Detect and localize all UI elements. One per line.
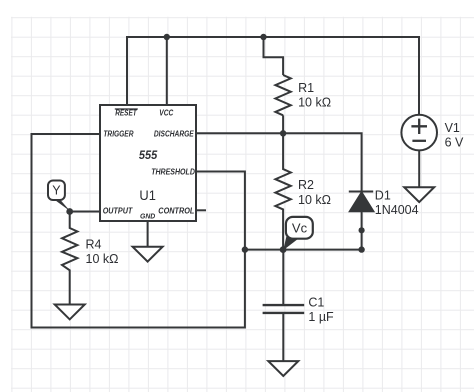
wire R1 bottom lead [282,115,284,133]
svg-text:Y: Y [52,184,61,198]
svg-text:1 µF: 1 µF [308,310,334,324]
voltage source V1 [401,115,437,187]
value labels [86,81,465,324]
wire VCC riser [166,37,168,105]
svg-text:D1: D1 [375,189,391,203]
node D1 anode junction [359,227,365,233]
resistor R4 [62,212,77,305]
svg-text:R4: R4 [86,237,102,251]
node output junction [66,208,73,215]
svg-text:Vc: Vc [292,220,308,235]
node D1 bottom junction [358,246,364,252]
svg-text:R1: R1 [298,81,314,95]
resistor R1 [275,75,290,115]
svg-text:TRIGGER: TRIGGER [103,130,133,139]
ground below 555 [133,247,163,262]
capacitor C1 [263,250,305,362]
ground below R4 [55,305,85,320]
svg-text:10 kΩ: 10 kΩ [298,96,331,110]
svg-text:10 kΩ: 10 kΩ [86,252,119,266]
svg-text:DISCHARGE: DISCHARGE [154,130,194,139]
diode D1 [349,192,374,231]
svg-text:6 V: 6 V [445,135,464,149]
node threshold junction [242,246,248,252]
node Vc junction [280,246,287,253]
wire DISCHARGE to D1 [196,133,362,191]
node tag Vc [283,217,313,250]
wire GND pin [147,221,149,247]
svg-text:CONTROL: CONTROL [158,207,194,216]
wire trigger feedback loop [32,134,245,328]
node tag Y [48,181,71,212]
wire D1 anode down [361,230,363,250]
wire Vc horizontal [245,249,362,251]
op-amp U1 555 timer box [100,105,196,221]
svg-text:C1: C1 [308,295,324,309]
svg-text:RESET: RESET [115,108,137,117]
wire R1 jog from top rail [264,37,284,75]
wire THRESHOLD to node [196,172,245,250]
wire top rail [127,37,419,115]
ground below V1 [404,187,434,202]
resistor R2 [275,133,290,249]
node VCC junction [164,34,170,40]
svg-text:1N4004: 1N4004 [375,203,419,217]
wire OUTPUT [70,211,100,213]
node R1 top junction [260,34,266,40]
wire CONTROL stub [196,209,206,211]
svg-text:U1: U1 [139,187,156,203]
svg-text:V1: V1 [445,121,460,135]
svg-text:555: 555 [139,150,158,162]
svg-text:THRESHOLD: THRESHOLD [151,168,195,177]
svg-text:10 kΩ: 10 kΩ [298,193,331,207]
555 pin labels [103,108,195,220]
svg-text:R2: R2 [298,178,314,192]
node R1/R2/discharge junction [280,130,286,136]
svg-text:GND: GND [140,214,155,221]
svg-text:VCC: VCC [159,108,173,117]
ground below C1 [268,361,298,376]
svg-text:OUTPUT: OUTPUT [103,207,134,216]
